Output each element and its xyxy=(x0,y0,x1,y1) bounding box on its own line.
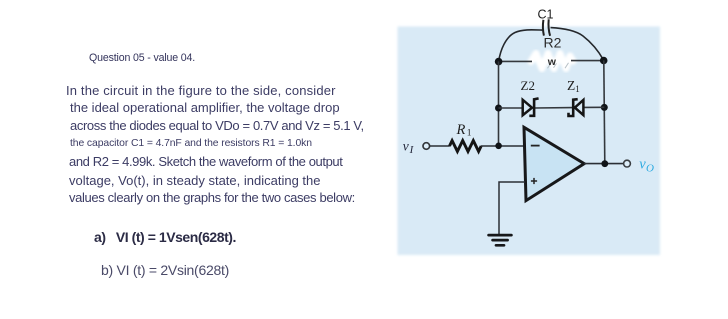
resistor R2 (whited-out zigzag) xyxy=(531,54,573,69)
capacitor C1 xyxy=(543,19,550,36)
output node dot xyxy=(601,160,608,167)
wire top row right xyxy=(571,60,604,62)
output wire xyxy=(584,163,624,165)
paragraph line 6 xyxy=(69,174,320,187)
paragraph line 3 xyxy=(70,119,364,132)
paragraph line 1 xyxy=(66,84,336,97)
ground xyxy=(489,235,512,245)
op-amp U1 xyxy=(524,127,584,200)
svg-text:R2: R2 xyxy=(544,35,562,51)
plus sign xyxy=(531,178,537,184)
wire feedback arc left xyxy=(499,30,543,61)
question header xyxy=(89,53,195,64)
svg-text:Z2: Z2 xyxy=(521,78,535,93)
wire right vertical xyxy=(604,60,605,163)
junction dot top right xyxy=(600,57,608,65)
zener diode Z1 xyxy=(569,99,584,116)
input terminal circle vI xyxy=(423,143,430,150)
wire input left xyxy=(430,145,450,147)
wire to inverting input xyxy=(481,145,525,147)
wire left vertical xyxy=(498,61,500,146)
junction dot zener row left xyxy=(495,105,502,112)
svg-text:w: w xyxy=(547,56,557,68)
wire feedback arc right xyxy=(551,28,604,60)
resistor R1 xyxy=(450,141,482,152)
junction dot inverting node xyxy=(495,143,502,150)
paragraph line 4 xyxy=(70,139,312,149)
paragraph line 2 xyxy=(70,101,340,114)
paragraph line 7 xyxy=(69,191,355,204)
junction dot zener row right xyxy=(601,104,608,111)
junction dot top left xyxy=(495,58,503,66)
wire top row left xyxy=(499,60,533,62)
zener diode Z2 xyxy=(523,98,539,115)
output terminal circle xyxy=(624,160,631,167)
paragraph line 5 xyxy=(69,155,342,168)
svg-text:1: 1 xyxy=(467,129,472,139)
item b xyxy=(101,263,229,277)
wire zener row xyxy=(499,106,605,109)
svg-text:C1: C1 xyxy=(538,7,554,21)
item a xyxy=(94,230,236,244)
svg-text:R: R xyxy=(456,122,466,138)
circuit background panel xyxy=(398,27,661,256)
minus sign xyxy=(531,145,540,147)
wire noninverting input xyxy=(499,182,525,234)
